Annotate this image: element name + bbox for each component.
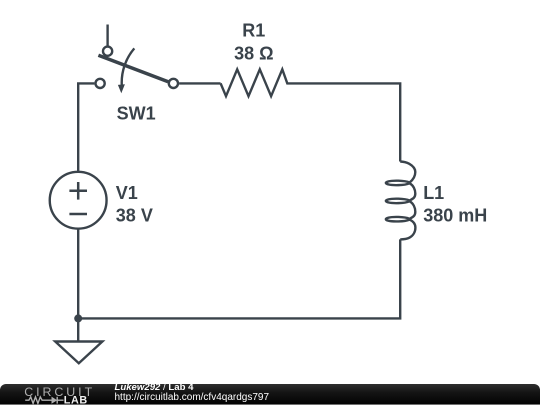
svg-text:38 V: 38 V — [116, 205, 153, 225]
svg-text:380 mH: 380 mH — [423, 205, 487, 225]
svg-text:38 Ω: 38 Ω — [234, 43, 273, 63]
svg-text:L1: L1 — [423, 183, 444, 203]
svg-text:R1: R1 — [242, 21, 265, 41]
svg-text:SW1: SW1 — [117, 103, 156, 123]
svg-text:V1: V1 — [116, 183, 138, 203]
